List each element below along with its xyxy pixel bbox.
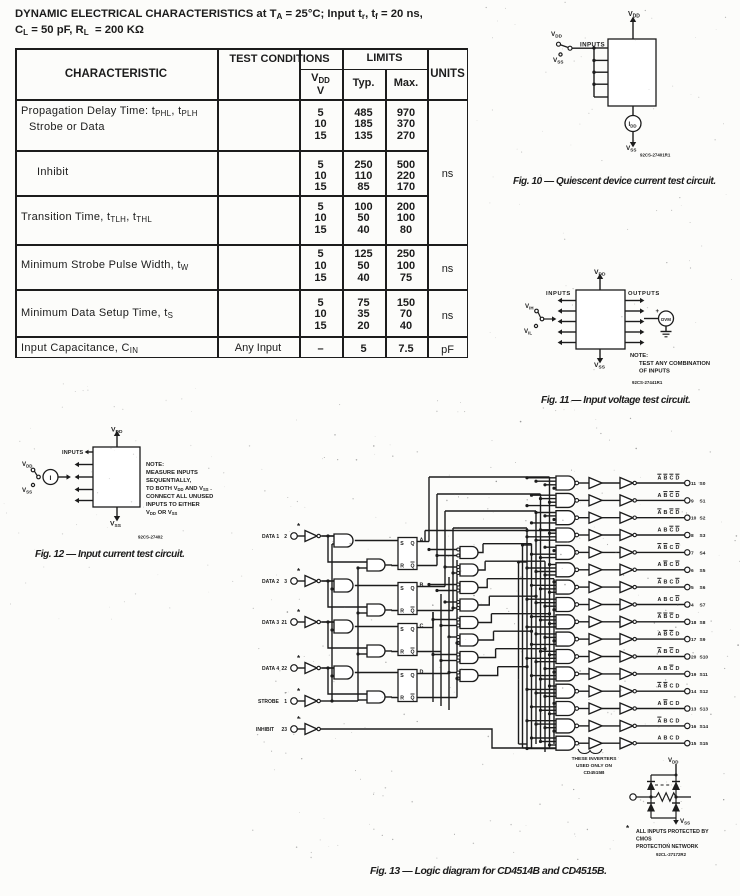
svg-text:INPUTS: INPUTS xyxy=(62,450,83,456)
svg-text:Q: Q xyxy=(411,696,415,702)
svg-text:D: D xyxy=(676,580,680,586)
svg-text:D: D xyxy=(676,597,680,603)
svg-text:D: D xyxy=(676,493,680,499)
svg-text:VSS: VSS xyxy=(680,818,690,826)
svg-text:MEASURE INPUTS: MEASURE INPUTS xyxy=(146,470,198,476)
svg-text:S1: S1 xyxy=(700,498,706,504)
svg-text:VDD: VDD xyxy=(111,427,123,436)
svg-text:VSS: VSS xyxy=(594,362,606,371)
svg-text:15: 15 xyxy=(691,741,697,747)
svg-text:THESE INVERTERS: THESE INVERTERS xyxy=(572,756,618,762)
svg-text:NOTE:: NOTE: xyxy=(146,462,164,468)
svg-text:13: 13 xyxy=(691,707,697,713)
svg-text:C: C xyxy=(670,527,674,533)
svg-text:A: A xyxy=(658,493,662,499)
svg-text:4: 4 xyxy=(691,603,694,609)
svg-text:S12: S12 xyxy=(700,689,709,695)
svg-text:B: B xyxy=(664,649,668,655)
svg-text:A: A xyxy=(658,736,662,742)
svg-text:INPUTS TO EITHER: INPUTS TO EITHER xyxy=(146,502,200,508)
svg-text:VDD: VDD xyxy=(22,461,32,469)
svg-text:S15: S15 xyxy=(700,741,709,747)
svg-text:B: B xyxy=(664,527,668,533)
svg-text:OUTPUTS: OUTPUTS xyxy=(628,291,660,297)
svg-text:A: A xyxy=(658,701,662,707)
svg-text:C: C xyxy=(670,580,674,586)
svg-text:A: A xyxy=(658,632,662,638)
svg-text:20: 20 xyxy=(691,655,697,661)
svg-text:B: B xyxy=(664,580,668,586)
svg-text:VSS: VSS xyxy=(626,145,636,153)
svg-text:92CL-27172R2: 92CL-27172R2 xyxy=(656,852,687,857)
svg-text:21: 21 xyxy=(281,620,287,626)
svg-text:92CS-27441R1: 92CS-27441R1 xyxy=(632,380,663,385)
svg-text:VSS: VSS xyxy=(110,521,122,530)
svg-text:INPUTS: INPUTS xyxy=(546,291,571,297)
svg-text:Q: Q xyxy=(411,586,415,592)
svg-text:A: A xyxy=(658,718,662,724)
svg-text:C: C xyxy=(670,632,674,638)
svg-text:A: A xyxy=(658,597,662,603)
svg-text:D: D xyxy=(676,684,680,690)
svg-text:R: R xyxy=(400,564,404,570)
svg-text:6: 6 xyxy=(691,568,694,574)
svg-text:D: D xyxy=(676,666,680,672)
svg-text:D: D xyxy=(676,475,680,481)
svg-text:CD4515B: CD4515B xyxy=(583,770,605,776)
svg-text:10: 10 xyxy=(691,516,697,522)
svg-text:D: D xyxy=(676,545,680,551)
svg-text:*: * xyxy=(297,715,301,724)
svg-text:B: B xyxy=(664,701,668,707)
svg-text:+: + xyxy=(656,309,660,315)
svg-text:Q: Q xyxy=(411,673,415,679)
svg-text:16: 16 xyxy=(691,724,697,730)
svg-text:B: B xyxy=(664,545,668,551)
svg-text:VDD: VDD xyxy=(668,757,678,765)
svg-text:C: C xyxy=(670,649,674,655)
svg-text:B: B xyxy=(664,632,668,638)
svg-text:C: C xyxy=(670,666,674,672)
svg-text:7: 7 xyxy=(691,550,694,556)
svg-text:B: B xyxy=(664,475,668,481)
svg-text:Q: Q xyxy=(411,564,415,570)
svg-text:D: D xyxy=(676,562,680,568)
svg-text:DATA 3: DATA 3 xyxy=(262,620,279,626)
svg-text:1: 1 xyxy=(284,699,287,705)
svg-text:PROTECTION NETWORK: PROTECTION NETWORK xyxy=(636,844,699,850)
svg-text:ALL INPUTS PROTECTED BY: ALL INPUTS PROTECTED BY xyxy=(636,829,709,835)
svg-text:INPUTS: INPUTS xyxy=(580,42,605,49)
svg-text:C: C xyxy=(670,614,674,620)
svg-text:A: A xyxy=(658,545,662,551)
svg-text:SEQUENTIALLY,: SEQUENTIALLY, xyxy=(146,478,192,484)
svg-text:USED ONLY ON: USED ONLY ON xyxy=(576,763,613,769)
svg-text:D: D xyxy=(676,736,680,742)
svg-text:22: 22 xyxy=(281,666,287,672)
svg-text:B: B xyxy=(420,583,424,589)
svg-text:*: * xyxy=(626,824,630,833)
svg-text:B: B xyxy=(664,597,668,603)
svg-text:C: C xyxy=(420,624,424,630)
svg-text:S9: S9 xyxy=(700,637,706,643)
svg-text:A: A xyxy=(658,562,662,568)
svg-text:D: D xyxy=(676,701,680,707)
svg-text:A: A xyxy=(658,527,662,533)
svg-text:Q: Q xyxy=(411,609,415,615)
svg-text:D: D xyxy=(676,718,680,724)
svg-text:S14: S14 xyxy=(700,724,709,730)
svg-text:D: D xyxy=(676,510,680,516)
svg-text:3: 3 xyxy=(284,579,287,585)
svg-text:S0: S0 xyxy=(700,481,706,487)
svg-text:STROBE: STROBE xyxy=(258,699,280,705)
svg-text:9: 9 xyxy=(691,498,694,504)
svg-text:A: A xyxy=(420,538,424,544)
svg-text:C: C xyxy=(670,545,674,551)
svg-text:C: C xyxy=(670,718,674,724)
svg-text:Q: Q xyxy=(411,541,415,547)
svg-text:DATA 2: DATA 2 xyxy=(262,579,279,585)
svg-text:92CS-27402: 92CS-27402 xyxy=(138,535,163,540)
svg-text:5: 5 xyxy=(691,585,694,591)
svg-text:A: A xyxy=(658,580,662,586)
svg-text:S10: S10 xyxy=(700,655,709,661)
svg-text:23: 23 xyxy=(281,727,287,733)
svg-text:D: D xyxy=(676,632,680,638)
svg-text:*: * xyxy=(297,608,301,617)
svg-text:2: 2 xyxy=(284,534,287,540)
svg-text:B: B xyxy=(664,666,668,672)
svg-text:S: S xyxy=(400,586,404,592)
svg-text:VIH: VIH xyxy=(525,303,534,311)
svg-text:B: B xyxy=(664,510,668,516)
svg-text:B: B xyxy=(664,736,668,742)
svg-text:R: R xyxy=(400,609,404,615)
svg-text:VDD: VDD xyxy=(594,269,606,278)
svg-text:B: B xyxy=(664,493,668,499)
svg-text:*: * xyxy=(297,687,301,696)
svg-text:18: 18 xyxy=(691,620,697,626)
svg-text:D: D xyxy=(676,649,680,655)
svg-text:CMOS: CMOS xyxy=(636,837,652,843)
svg-text:A: A xyxy=(658,649,662,655)
svg-text:S: S xyxy=(400,673,404,679)
svg-text:*: * xyxy=(297,522,301,531)
svg-text:S11: S11 xyxy=(700,672,709,678)
svg-text:S5: S5 xyxy=(700,568,706,574)
svg-text:R: R xyxy=(400,696,404,702)
svg-text:B: B xyxy=(664,718,668,724)
svg-text:C: C xyxy=(670,562,674,568)
svg-text:Q: Q xyxy=(411,650,415,656)
svg-text:C: C xyxy=(670,684,674,690)
svg-text:11: 11 xyxy=(691,481,696,487)
svg-text:OF INPUTS: OF INPUTS xyxy=(639,369,670,375)
svg-text:DATA 4: DATA 4 xyxy=(262,666,279,672)
svg-text:C: C xyxy=(670,597,674,603)
svg-text:*: * xyxy=(297,654,301,663)
svg-text:VIL: VIL xyxy=(524,328,532,336)
svg-text:92CS-27401R1: 92CS-27401R1 xyxy=(640,153,671,158)
svg-text:TEST ANY COMBINATION: TEST ANY COMBINATION xyxy=(639,361,710,367)
svg-text:A: A xyxy=(658,684,662,690)
svg-text:S7: S7 xyxy=(700,603,706,609)
svg-text:CONNECT ALL UNUSED: CONNECT ALL UNUSED xyxy=(146,494,213,500)
svg-text:DATA 1: DATA 1 xyxy=(262,534,279,540)
svg-text:D: D xyxy=(676,527,680,533)
svg-text:8: 8 xyxy=(691,533,694,539)
svg-text:*: * xyxy=(297,567,301,576)
svg-text:VSS: VSS xyxy=(553,57,563,65)
svg-text:VDD OR VSS: VDD OR VSS xyxy=(146,510,178,516)
svg-text:C: C xyxy=(670,736,674,742)
svg-text:S8: S8 xyxy=(700,620,706,626)
svg-text:C: C xyxy=(670,701,674,707)
svg-text:C: C xyxy=(670,475,674,481)
svg-text:S13: S13 xyxy=(700,707,709,713)
svg-text:A: A xyxy=(658,666,662,672)
svg-text:S2: S2 xyxy=(700,516,706,522)
svg-text:INHIBIT: INHIBIT xyxy=(256,727,274,733)
svg-text:VSS: VSS xyxy=(22,487,32,495)
svg-text:C: C xyxy=(670,493,674,499)
svg-text:Q: Q xyxy=(411,627,415,633)
svg-text:19: 19 xyxy=(691,672,697,678)
svg-text:A: A xyxy=(658,510,662,516)
svg-text:B: B xyxy=(664,562,668,568)
svg-text:A: A xyxy=(658,475,662,481)
svg-text:S3: S3 xyxy=(700,533,706,539)
svg-text:D: D xyxy=(676,614,680,620)
svg-text:S4: S4 xyxy=(700,550,706,556)
svg-text:VDD: VDD xyxy=(628,11,640,20)
svg-text:NOTE:: NOTE: xyxy=(630,353,648,359)
svg-text:S: S xyxy=(400,541,404,547)
svg-text:C: C xyxy=(670,510,674,516)
svg-text:DVM: DVM xyxy=(661,317,671,322)
svg-text:17: 17 xyxy=(691,637,697,643)
svg-text:R: R xyxy=(400,650,404,656)
svg-text:B: B xyxy=(664,614,668,620)
svg-text:TO BOTH VDD AND VSS .: TO BOTH VDD AND VSS . xyxy=(146,486,212,492)
svg-text:S6: S6 xyxy=(700,585,706,591)
svg-text:I: I xyxy=(50,475,52,482)
svg-text:14: 14 xyxy=(691,689,697,695)
svg-text:A: A xyxy=(658,614,662,620)
svg-text:S: S xyxy=(400,627,404,633)
svg-text:VDD: VDD xyxy=(551,31,563,39)
svg-text:B: B xyxy=(664,684,668,690)
